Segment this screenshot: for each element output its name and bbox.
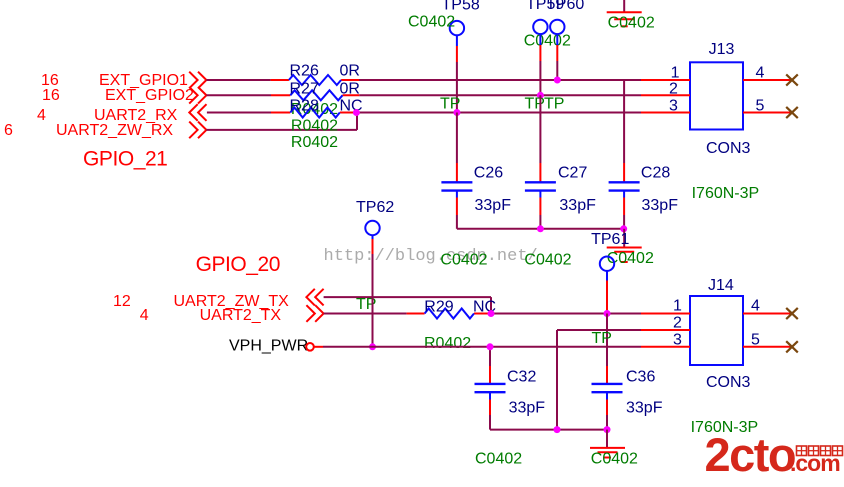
svg-text:2cto: 2cto — [705, 428, 796, 481]
node junction R28 output to UART2_ZW_RX — [353, 109, 360, 116]
svg-text:C27: C27 — [558, 165, 587, 182]
watermark http://blog.csdn.net/ — [324, 247, 538, 266]
svg-text:0R: 0R — [340, 80, 360, 97]
wire C27 vertical — [539, 95, 541, 181]
svg-text:TP58: TP58 — [442, 0, 480, 14]
node junction R29 output — [488, 310, 495, 317]
resistor R29 footprint label R0402 — [424, 335, 471, 352]
node junction TP62 on VPH_PWR — [369, 343, 376, 350]
J13 pin 3 — [641, 98, 690, 115]
svg-text:UART2_ZW_RX: UART2_ZW_RX — [56, 122, 173, 139]
wire UART2_RX net row 3 — [207, 112, 641, 114]
node junction C32 top on VPH_PWR — [487, 343, 494, 350]
wire bottom bus — [490, 429, 607, 431]
node junction TP61 on UART2_TX row — [604, 310, 611, 317]
wire down to mid ground — [623, 229, 625, 248]
svg-text:TP: TP — [440, 96, 460, 113]
svg-text:33pF: 33pF — [509, 400, 546, 417]
svg-text:CON3: CON3 — [706, 140, 751, 157]
wire TP62 down to VPH_PWR row — [372, 235, 374, 347]
J14 pin 5 — [743, 332, 792, 349]
capacitor C36 33pF — [592, 369, 663, 417]
svg-text:C0402: C0402 — [591, 450, 638, 467]
capacitor C26 33pF — [441, 165, 511, 214]
svg-text:C26: C26 — [474, 165, 503, 182]
wire C32 vertical — [489, 347, 491, 384]
test point TP58 — [442, 0, 480, 35]
node junction pin2 wire on bottom bus — [554, 426, 561, 433]
svg-text:I760N-3P: I760N-3P — [692, 185, 760, 202]
wire UART2_ZW_RX row 4 and vertical joining row 3 — [206, 113, 357, 130]
no-connect X on J14 pin 4 — [786, 308, 798, 319]
resistor R1 pins (red stubs of R26) — [271, 79, 359, 81]
svg-text:CON3: CON3 — [706, 374, 751, 391]
svg-text:R0402: R0402 — [291, 118, 338, 135]
resistor R29 pins (red stubs) — [407, 313, 490, 315]
wire C27 bottom — [539, 191, 541, 229]
wire J14 pin2 to bottom bus — [557, 330, 641, 430]
svg-text:12: 12 — [113, 293, 131, 310]
title GPIO_21 — [83, 148, 167, 171]
svg-text:1: 1 — [671, 65, 680, 82]
off-page connector EXT_GPIO2 with pin number 16 — [42, 87, 206, 104]
wire VPH_PWR row — [314, 346, 641, 348]
svg-text:J14: J14 — [708, 277, 734, 294]
capacitor footprint labels C0402 C0402 mid — [440, 251, 571, 268]
J13 pin 5 — [743, 98, 792, 115]
svg-text:R27: R27 — [290, 80, 319, 97]
net labels TP TP near row 3 — [525, 96, 565, 113]
no-connect X on J13 pin 5 — [786, 107, 798, 118]
svg-text:C0402: C0402 — [475, 451, 522, 468]
svg-text:4: 4 — [37, 107, 46, 124]
svg-text:C0402: C0402 — [524, 251, 571, 268]
ground bottom — [590, 448, 625, 458]
resistor R26 0R — [289, 63, 360, 86]
svg-text:TP61: TP61 — [591, 231, 629, 248]
svg-text:4: 4 — [756, 65, 765, 82]
power net VPH_PWR — [229, 338, 314, 355]
node junction C36 on bottom bus — [604, 426, 611, 433]
J13 pin 1 — [641, 65, 690, 82]
svg-text:VPH_PWR: VPH_PWR — [229, 338, 308, 355]
watermark logo 2cto.com — [705, 428, 841, 481]
svg-text:4: 4 — [140, 307, 149, 324]
svg-text:1: 1 — [673, 298, 682, 315]
off-page connector UART2_TX with pin number 4 — [140, 305, 324, 324]
wire EXT_GPIO1 net row 1 — [206, 79, 641, 81]
connector footprint label I760N-3P bottom — [691, 419, 759, 436]
node junction TP60 on row 1 — [554, 77, 561, 84]
test point TP58 footprint label C0402 — [408, 14, 455, 31]
svg-text:R28: R28 — [290, 98, 319, 115]
svg-text:33pF: 33pF — [642, 197, 679, 214]
svg-text:33pF: 33pF — [559, 197, 596, 214]
wire ground stub top right — [623, 0, 625, 12]
svg-text:GPIO_20: GPIO_20 — [196, 253, 280, 276]
wire TP58 down to row 3 — [456, 35, 458, 113]
svg-text:33pF: 33pF — [475, 197, 512, 214]
svg-text:2: 2 — [673, 315, 682, 332]
resistor R26 footprint label R0402 — [291, 101, 338, 118]
svg-text:GPIO_21: GPIO_21 — [83, 148, 167, 171]
wire TP60 down to row 1 — [556, 33, 558, 80]
wire C26 vertical — [456, 113, 458, 182]
net label TP near J14 — [592, 330, 612, 347]
svg-text:33pF: 33pF — [626, 400, 663, 417]
svg-text:R0402: R0402 — [291, 134, 338, 151]
J13 pin 4 — [743, 65, 792, 82]
test point TP59 — [526, 0, 564, 34]
resistor R27 footprint label R0402 — [291, 118, 338, 135]
wire capacitor bottom bus — [457, 228, 624, 230]
title GPIO_20 — [196, 253, 280, 276]
svg-text:http://blog.csdn.net/: http://blog.csdn.net/ — [324, 247, 538, 266]
capacitor C32 label C0402 bottom — [475, 451, 522, 468]
svg-text:C28: C28 — [641, 165, 670, 182]
resistor R27 0R — [290, 80, 360, 100]
off-page connector UART2_ZW_TX with pin number 12 — [113, 289, 324, 310]
capacitor C27 33pF — [525, 165, 596, 214]
svg-text:C0402: C0402 — [440, 251, 487, 268]
svg-text:TP60: TP60 — [546, 0, 584, 13]
wire TP61 junction down to C36 — [606, 314, 608, 384]
svg-text:TP: TP — [592, 330, 612, 347]
watermark logo red text — [797, 446, 843, 456]
svg-text:6: 6 — [4, 122, 13, 139]
node junction TP59/C27 on row 2 — [537, 92, 544, 99]
svg-text:4: 4 — [751, 298, 760, 315]
wire TP61 down to junction — [606, 270, 608, 313]
wire C36 bottom — [606, 392, 608, 429]
no-connect X on J13 pin 4 — [786, 74, 798, 85]
net label TP near TP62 — [356, 296, 376, 313]
svg-text:TP: TP — [544, 96, 564, 113]
connector footprint label I760N-3P top — [692, 185, 760, 202]
svg-text:C32: C32 — [507, 369, 536, 386]
resistor R28 NC — [290, 98, 363, 118]
connector J14 — [690, 277, 743, 365]
resistor R28 footprint label R0402 — [291, 134, 338, 151]
off-page connector UART2_ZW_RX with pin number 6 — [4, 122, 206, 139]
no-connect X on J14 pin 5 — [786, 341, 798, 352]
ground mid right — [607, 248, 642, 263]
svg-text:UART2_TX: UART2_TX — [200, 307, 282, 324]
wire UART2_TX row — [324, 313, 641, 315]
node junction TP58/C26 on row 3 — [453, 109, 460, 116]
resistor R29 NC — [424, 298, 496, 318]
svg-text:R29: R29 — [424, 298, 453, 315]
test point TP60 — [546, 0, 584, 34]
svg-text:R26: R26 — [290, 63, 319, 80]
wire UART2_ZW_TX row — [324, 297, 491, 313]
node junction C27 bottom — [537, 225, 544, 232]
connector J13 — [690, 41, 743, 130]
svg-text:C0402: C0402 — [608, 15, 655, 32]
J14 pin 4 — [743, 298, 792, 315]
svg-text:0R: 0R — [340, 63, 360, 80]
capacitor C32 33pF — [475, 369, 546, 417]
ground top right label C0402 — [608, 15, 655, 32]
J13 pin 2 — [641, 80, 690, 97]
net label TP row 3 — [440, 96, 460, 113]
wire C28 vertical — [623, 80, 625, 182]
capacitor C36 label C0402 bottom — [591, 450, 638, 467]
wire C28 bottom — [623, 191, 625, 229]
wire TP59 down to row 2 — [539, 33, 541, 95]
svg-text:TP62: TP62 — [356, 199, 394, 216]
capacitor C28 33pF — [609, 165, 679, 214]
ground mid label C0402 — [607, 250, 654, 267]
J14 pin 1 — [641, 298, 690, 315]
svg-text:R0402: R0402 — [424, 335, 471, 352]
svg-text:16: 16 — [42, 87, 60, 104]
wire down to bottom ground — [606, 430, 608, 448]
test point TP62 — [356, 199, 394, 235]
ground top right — [607, 12, 642, 26]
wire EXT_GPIO2 net row 2 — [206, 94, 641, 96]
svg-text:J13: J13 — [709, 41, 735, 58]
J14 pin 3 — [641, 332, 690, 349]
resistor R28 pins (red stubs) — [271, 112, 356, 114]
wire C32 bottom — [489, 392, 491, 429]
off-page connector EXT_GPIO1 with pin number 16 — [41, 72, 206, 89]
test point TP61 — [591, 231, 629, 271]
connector J14 value CON3 — [706, 374, 751, 391]
svg-text:C0402: C0402 — [524, 32, 571, 49]
svg-text:TP: TP — [525, 96, 545, 113]
resistor R27 pins (red stubs) — [271, 94, 359, 96]
node junction C28 bottom — [620, 225, 627, 232]
off-page connector UART2_RX with pin number 4 — [37, 104, 207, 124]
svg-text:C0402: C0402 — [408, 14, 455, 31]
svg-text:C36: C36 — [626, 369, 655, 386]
J14 pin 2 — [641, 315, 690, 332]
wire C26 bottom — [456, 191, 458, 229]
test points TP59 TP60 footprint label C0402 — [524, 32, 571, 49]
svg-text:EXT_GPIO2: EXT_GPIO2 — [105, 87, 194, 104]
connector J13 value CON3 — [706, 140, 751, 157]
